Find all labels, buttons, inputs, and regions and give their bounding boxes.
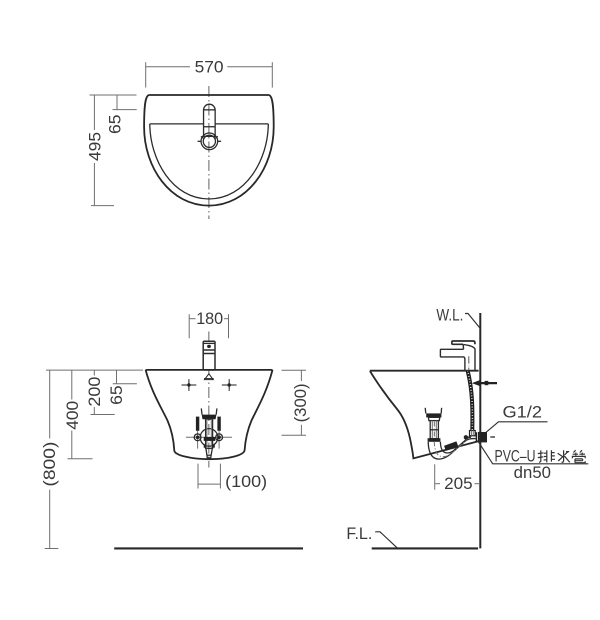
drain flange front bbox=[202, 415, 217, 420]
dimension 495 bbox=[86, 95, 136, 206]
basin outline front bbox=[146, 370, 273, 459]
locknut right front bbox=[212, 445, 214, 448]
PVC CJK 管 bbox=[572, 450, 585, 463]
svg-text:495: 495 bbox=[86, 132, 104, 161]
supply stub bbox=[481, 382, 497, 384]
basin top edge front bbox=[146, 369, 273, 371]
tail cup left side bbox=[424, 408, 427, 414]
svg-text:F.L.: F.L. bbox=[346, 525, 372, 543]
drain pipe inner lines front bbox=[206, 419, 208, 448]
drain tail tick bbox=[207, 454, 211, 456]
waste tee front bbox=[204, 437, 216, 441]
drain circle outer plan bbox=[201, 133, 218, 150]
svg-text:65: 65 bbox=[108, 385, 126, 405]
drain diagonal tick left bbox=[201, 136, 204, 138]
drain tail front bbox=[206, 448, 212, 458]
svg-text:(300): (300) bbox=[292, 383, 310, 422]
bolt left front bbox=[196, 417, 199, 431]
drain pipe front bbox=[206, 419, 213, 448]
centerline plan bbox=[208, 86, 210, 219]
wall fitting threads bbox=[476, 432, 478, 443]
wall fitting dot bbox=[464, 435, 468, 439]
dimension 570 bbox=[146, 59, 273, 88]
svg-text:(100): (100) bbox=[225, 473, 267, 491]
floor line front bbox=[114, 547, 303, 549]
extension line top front bbox=[46, 369, 143, 371]
basin outer outline plan bbox=[144, 95, 274, 206]
J-bend centerline bbox=[434, 436, 475, 457]
basin top edge side bbox=[370, 370, 479, 372]
svg-text:205: 205 bbox=[444, 475, 473, 493]
svg-text:400: 400 bbox=[64, 401, 82, 430]
basin inner bowl plan bbox=[150, 124, 268, 199]
dimension 200 front bbox=[86, 370, 115, 414]
svg-text:180: 180 bbox=[196, 310, 223, 328]
basin deck line plan right bbox=[215, 123, 268, 125]
overflow arrow crossbar bbox=[204, 378, 214, 380]
hole cross left front bbox=[182, 379, 197, 391]
faucet mid line plan bbox=[204, 126, 216, 128]
faucet capsule plan bbox=[204, 104, 216, 136]
drain cup right front bbox=[215, 408, 218, 414]
supply valve square bbox=[485, 381, 489, 385]
tail flange step bbox=[428, 417, 439, 420]
dimension 65 front bbox=[108, 370, 137, 405]
faucet cap line front bbox=[203, 342, 215, 344]
svg-text:dn50: dn50 bbox=[514, 464, 551, 482]
dimension 400 front bbox=[64, 370, 93, 459]
basin profile side bbox=[370, 371, 478, 458]
nut centerline front bbox=[186, 436, 232, 438]
G1/2 underline and leader bbox=[486, 422, 548, 433]
J-bend inner side bbox=[440, 435, 475, 454]
wall outlet dash bbox=[490, 436, 495, 438]
faucet handle side bbox=[452, 341, 475, 344]
dimension 65 plan bbox=[107, 95, 137, 134]
faucet centerline side bbox=[468, 356, 470, 369]
wall outlet square bbox=[480, 432, 487, 442]
svg-text:G1/2: G1/2 bbox=[503, 404, 543, 422]
bend slip nut bbox=[444, 441, 458, 450]
svg-text:(800): (800) bbox=[41, 442, 59, 487]
bolt right front bbox=[217, 417, 220, 431]
PVC underline and leader bbox=[478, 441, 589, 464]
nut right front bbox=[216, 434, 223, 441]
faucet body side bbox=[440, 344, 475, 370]
trap circle front bbox=[200, 429, 218, 447]
svg-text:570: 570 bbox=[195, 59, 224, 77]
faucet neck line plan bbox=[204, 109, 216, 111]
drain circle inner plan bbox=[203, 135, 215, 147]
F.L. leader bbox=[375, 532, 397, 549]
supply hose side bbox=[468, 371, 473, 430]
drain cup left front bbox=[200, 408, 203, 414]
svg-text:65: 65 bbox=[107, 114, 125, 134]
tail pipe joint bbox=[430, 429, 438, 431]
PVC CJK 排 bbox=[538, 450, 555, 462]
faucet shoulder curve side bbox=[464, 345, 475, 349]
tail pipe centerline bbox=[433, 422, 435, 437]
bolt left stem bbox=[197, 431, 199, 449]
floor line side bbox=[372, 547, 478, 549]
tail cup right side bbox=[440, 408, 442, 414]
faucet band line 1 front bbox=[203, 349, 215, 351]
locknut left front bbox=[204, 445, 206, 448]
W.L. leader bbox=[465, 314, 480, 329]
PVC CJK 水 bbox=[558, 450, 570, 462]
dimension (800) front bbox=[41, 370, 59, 548]
dimension 180 bbox=[189, 310, 228, 338]
tail pipe inner walls bbox=[431, 421, 433, 439]
faucet handle dot front bbox=[207, 345, 211, 348]
bolt right stem bbox=[218, 431, 220, 449]
tail flange side bbox=[426, 413, 441, 417]
dimension (300) front bbox=[282, 370, 310, 435]
supply arrow head bbox=[472, 380, 481, 387]
hole cross right front bbox=[222, 379, 237, 391]
nut left front bbox=[194, 434, 201, 441]
svg-text:200: 200 bbox=[86, 377, 104, 407]
hole cross left dot bbox=[187, 383, 190, 386]
tail nut side bbox=[428, 438, 441, 442]
hole cross right dot bbox=[228, 383, 231, 386]
svg-text:W.L.: W.L. bbox=[436, 306, 463, 324]
faucet band line 2 front bbox=[203, 353, 215, 355]
dimension 205 bbox=[435, 464, 480, 493]
overflow arrow front bbox=[205, 374, 214, 380]
dimension (100) front bbox=[198, 464, 267, 492]
hose end nut bbox=[470, 431, 476, 436]
faucet body front bbox=[203, 341, 215, 370]
basin deck line plan left bbox=[150, 123, 204, 125]
centerline front bbox=[208, 332, 210, 468]
wall line bbox=[479, 313, 481, 548]
drain centermark tick left bbox=[198, 140, 202, 142]
J-bend outer side bbox=[428, 439, 475, 460]
drain centermark tick right bbox=[217, 140, 221, 142]
tail pipe side bbox=[430, 421, 438, 439]
drain diagonal tick right bbox=[215, 136, 218, 138]
